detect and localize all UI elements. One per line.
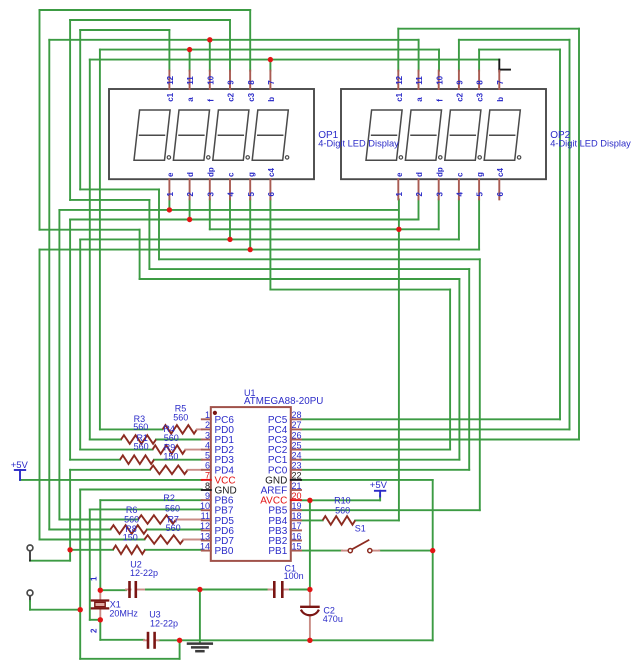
svg-text:13: 13 — [200, 531, 210, 541]
svg-text:1: 1 — [90, 576, 99, 581]
svg-text:f: f — [206, 99, 215, 102]
svg-text:g: g — [476, 172, 485, 177]
svg-text:11: 11 — [186, 76, 195, 85]
svg-text:c3: c3 — [476, 92, 485, 101]
svg-text:560: 560 — [134, 442, 149, 452]
svg-text:560: 560 — [166, 523, 181, 533]
svg-text:2: 2 — [205, 420, 210, 430]
svg-text:R10: R10 — [334, 495, 351, 505]
svg-text:3: 3 — [206, 192, 215, 197]
svg-text:8: 8 — [205, 481, 210, 491]
svg-text:b: b — [496, 97, 505, 102]
svg-text:22: 22 — [292, 471, 302, 481]
svg-text:3: 3 — [435, 192, 444, 197]
svg-text:1: 1 — [205, 410, 210, 420]
svg-text:7: 7 — [496, 80, 505, 85]
svg-text:560: 560 — [133, 422, 148, 432]
svg-text:dp: dp — [435, 167, 444, 177]
svg-text:d: d — [186, 172, 195, 177]
svg-text:11: 11 — [201, 511, 210, 521]
svg-text:150: 150 — [123, 533, 138, 543]
svg-text:g: g — [247, 172, 256, 177]
svg-text:PB0: PB0 — [215, 546, 234, 557]
svg-text:2: 2 — [186, 192, 195, 197]
svg-text:150: 150 — [163, 452, 178, 462]
svg-text:ATMEGA88-20PU: ATMEGA88-20PU — [244, 396, 323, 407]
svg-text:15: 15 — [292, 541, 302, 551]
svg-text:4: 4 — [227, 192, 236, 197]
svg-text:2: 2 — [415, 192, 424, 197]
svg-text:c: c — [227, 172, 236, 177]
svg-text:6: 6 — [205, 461, 210, 471]
svg-text:470u: 470u — [323, 614, 343, 624]
svg-text:28: 28 — [292, 410, 302, 420]
svg-text:4-Digit LED Display: 4-Digit LED Display — [318, 138, 399, 148]
svg-text:16: 16 — [292, 531, 302, 541]
svg-text:26: 26 — [292, 430, 302, 440]
svg-text:d: d — [415, 172, 424, 177]
svg-text:9: 9 — [227, 80, 236, 85]
svg-text:c1: c1 — [395, 92, 404, 101]
svg-text:5: 5 — [476, 192, 485, 197]
svg-text:1: 1 — [166, 192, 175, 197]
svg-text:5: 5 — [247, 192, 256, 197]
svg-text:6: 6 — [496, 192, 505, 197]
svg-text:b: b — [267, 97, 276, 102]
svg-text:c4: c4 — [267, 168, 276, 177]
svg-text:9: 9 — [205, 491, 210, 501]
svg-text:17: 17 — [292, 521, 302, 531]
svg-text:c2: c2 — [456, 92, 465, 101]
svg-text:e: e — [166, 172, 175, 177]
svg-text:8: 8 — [476, 80, 485, 85]
svg-text:c3: c3 — [247, 92, 256, 101]
svg-text:2: 2 — [90, 628, 99, 633]
svg-text:10: 10 — [435, 75, 444, 84]
svg-text:560: 560 — [173, 413, 188, 423]
svg-text:6: 6 — [267, 192, 276, 197]
svg-text:19: 19 — [292, 501, 302, 511]
svg-text:S1: S1 — [355, 524, 366, 534]
svg-text:12: 12 — [395, 75, 404, 84]
svg-text:18: 18 — [292, 511, 302, 521]
svg-text:560: 560 — [165, 503, 180, 513]
svg-text:c4: c4 — [496, 168, 505, 177]
svg-text:23: 23 — [292, 461, 302, 471]
svg-text:10: 10 — [206, 75, 215, 84]
svg-text:14: 14 — [200, 541, 210, 551]
svg-text:5: 5 — [205, 451, 210, 461]
svg-text:9: 9 — [456, 80, 465, 85]
svg-text:100n: 100n — [284, 571, 304, 581]
svg-text:a: a — [415, 97, 424, 102]
svg-text:+5V: +5V — [370, 480, 388, 491]
svg-text:4-Digit LED Display: 4-Digit LED Display — [550, 138, 631, 148]
svg-text:27: 27 — [292, 420, 302, 430]
svg-text:8: 8 — [247, 80, 256, 85]
svg-text:PB1: PB1 — [268, 546, 287, 557]
svg-text:7: 7 — [205, 471, 210, 481]
svg-text:24: 24 — [292, 451, 302, 461]
svg-text:a: a — [186, 97, 195, 102]
svg-text:R2: R2 — [163, 493, 175, 503]
svg-text:3: 3 — [205, 430, 210, 440]
svg-text:10: 10 — [200, 501, 210, 511]
svg-text:25: 25 — [292, 440, 302, 450]
svg-text:c1: c1 — [166, 92, 175, 101]
svg-text:11: 11 — [415, 76, 424, 85]
svg-text:7: 7 — [267, 80, 276, 85]
svg-text:12: 12 — [200, 521, 210, 531]
svg-text:12: 12 — [166, 75, 175, 84]
svg-text:12-22p: 12-22p — [150, 618, 178, 628]
svg-text:20: 20 — [292, 491, 302, 501]
svg-text:560: 560 — [335, 505, 350, 515]
svg-text:20MHz: 20MHz — [109, 609, 138, 619]
svg-text:c: c — [456, 172, 465, 177]
svg-text:4: 4 — [456, 192, 465, 197]
svg-text:1: 1 — [395, 192, 404, 197]
svg-text:f: f — [435, 99, 444, 102]
svg-text:dp: dp — [206, 167, 215, 177]
svg-text:4: 4 — [205, 440, 210, 450]
svg-text:e: e — [395, 172, 404, 177]
svg-text:21: 21 — [292, 481, 302, 491]
svg-text:12-22p: 12-22p — [130, 568, 158, 578]
svg-text:c2: c2 — [227, 92, 236, 101]
